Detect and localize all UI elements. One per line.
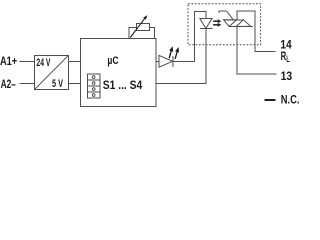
wire opto LED cathode down to uC <box>156 29 206 84</box>
wire A2 <box>20 83 36 85</box>
N.C. stub line <box>265 99 276 101</box>
microcontroller box <box>80 39 156 107</box>
potentiometer right lead <box>150 27 155 38</box>
wire MT2 loop to terminal 14 <box>237 11 276 52</box>
status LED cathode bar <box>172 56 174 67</box>
svg-text:A2–: A2– <box>1 77 16 91</box>
optocoupler dashed outline <box>188 4 261 45</box>
opto LED coupling arrows <box>213 20 218 22</box>
svg-text:N.C.: N.C. <box>281 93 300 107</box>
status LED triangle <box>159 55 173 67</box>
svg-text:µC: µC <box>107 55 118 67</box>
potentiometer left lead <box>129 27 137 38</box>
wire DCDC to uC upper <box>68 60 80 62</box>
svg-text:24 V: 24 V <box>36 57 51 69</box>
triac right triangle <box>236 20 251 27</box>
wire MT1 down to terminal 13 <box>237 26 277 74</box>
potentiometer body <box>137 24 150 31</box>
opto LED triangle <box>200 19 212 29</box>
DC/DC diagonal <box>35 56 68 89</box>
svg-text:A1+: A1+ <box>0 54 17 68</box>
wire uC to status LED <box>156 60 159 62</box>
triac bottom bar <box>228 25 253 27</box>
svg-text:L: L <box>286 54 290 64</box>
svg-text:13: 13 <box>281 69 293 83</box>
wire A1 <box>20 60 36 62</box>
svg-text:5 V: 5 V <box>52 78 64 90</box>
wire status LED to node <box>173 60 195 62</box>
svg-text:S1 ... S4: S1 ... S4 <box>103 78 143 92</box>
status LED light arrows <box>169 51 171 58</box>
DIP switch S1-S4 icon <box>88 74 100 98</box>
potentiometer wiper arrow <box>130 19 144 38</box>
triac top bar <box>223 19 243 21</box>
wire node up to opto LED anode <box>195 12 206 62</box>
triac left triangle <box>223 20 236 27</box>
opto LED cathode bar <box>200 28 212 30</box>
DC/DC converter box <box>35 56 69 90</box>
wire DCDC to uC lower <box>68 83 80 85</box>
triac gate lead <box>219 11 227 13</box>
